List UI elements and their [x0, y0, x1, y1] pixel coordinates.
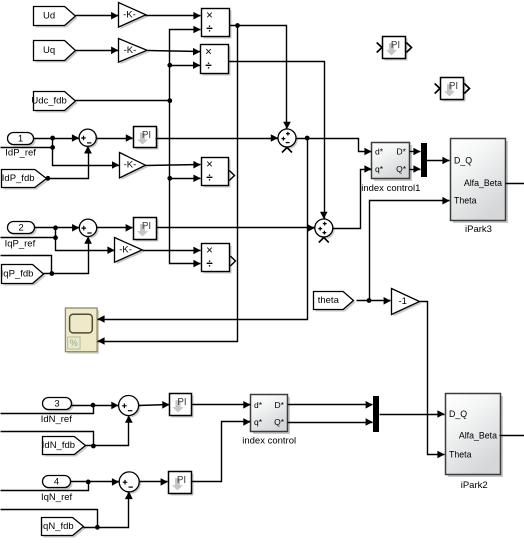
- svg-text:IqN_fdb: IqN_fdb: [40, 521, 73, 532]
- product-divide block P1: [202, 9, 232, 39]
- label IqP_ref: [5, 238, 36, 249]
- mux M2: [373, 396, 379, 432]
- svg-text:÷: ÷: [206, 24, 213, 36]
- product-divide block P4: [202, 244, 236, 274]
- wire Udc to P2 div: [170, 61, 201, 69]
- from tag Ud: [34, 7, 78, 28]
- svg-text:q*: q*: [254, 417, 263, 427]
- svg-text:×: ×: [206, 245, 213, 257]
- sum junction S3 (IdN err): [119, 396, 141, 423]
- scope Scope (flipped): [65, 308, 99, 354]
- wire ic Q* to mux2: [288, 418, 373, 426]
- svg-text:IdP_fdb: IdP_fdb: [2, 173, 35, 184]
- wire P2 out to SB2: [229, 62, 328, 220]
- svg-text:PI: PI: [449, 81, 458, 92]
- gain K2 (Uq): [119, 39, 150, 65]
- sum junction S4 (IqN err): [119, 472, 141, 499]
- junction IdN_fdb J: [91, 444, 96, 449]
- wire PI3 to ic d*: [192, 401, 251, 409]
- svg-text:%: %: [70, 338, 78, 348]
- svg-text:Udc_fdb: Udc_fdb: [31, 96, 66, 107]
- svg-text:Alfa_Beta: Alfa_Beta: [459, 430, 497, 440]
- wire IqN_fdb to S4 bottom: [84, 492, 133, 528]
- inport 3 (IdN_ref): [43, 398, 74, 412]
- junction in3 J: [91, 403, 96, 408]
- product-divide block P2: [201, 45, 231, 76]
- PI controller PI4: [169, 472, 194, 496]
- wire in1 down to K3: [53, 148, 120, 169]
- svg-text:q*: q*: [375, 164, 384, 174]
- svg-text:Q*: Q*: [274, 417, 285, 427]
- subsystem iPark2: [446, 394, 504, 478]
- svg-text:PI: PI: [142, 130, 151, 141]
- label IqN_ref: [41, 492, 73, 503]
- subsystem index control: [251, 395, 291, 435]
- wire IdP_ref out to edge: [1, 139, 53, 148]
- svg-text:PI: PI: [177, 475, 186, 486]
- junction P1 branch: [235, 23, 240, 28]
- wire SB1 to scope1: [97, 139, 307, 323]
- svg-text:d*: d*: [254, 400, 263, 410]
- wire in2 down to K4: [56, 238, 115, 255]
- svg-text:1: 1: [18, 134, 23, 145]
- svg-text:D*: D*: [397, 147, 407, 157]
- wire K1 to P1 x: [146, 12, 201, 20]
- wire IqP_fdb feed from edge: [1, 256, 52, 274]
- wire IdN_fdb feed from edge: [1, 432, 94, 447]
- wire ic1 D* to mux: [410, 148, 421, 156]
- junction Udc at P2: [167, 63, 172, 68]
- svg-text:iPark3: iPark3: [465, 224, 492, 235]
- junction in4 J: [86, 480, 91, 485]
- svg-text:Theta: Theta: [454, 196, 477, 206]
- svg-text:-K-: -K-: [119, 244, 132, 255]
- svg-text:D_Q: D_Q: [449, 409, 467, 419]
- svg-text:theta: theta: [318, 295, 340, 306]
- svg-text:IdN_ref: IdN_ref: [41, 414, 73, 425]
- mux M1: [421, 143, 427, 177]
- wire mux2 to iPark2: [380, 410, 445, 418]
- wire theta up to iPark3: [370, 197, 450, 301]
- wire IqP_fdb to S2 bottom: [44, 237, 92, 274]
- wire P1 out: [230, 26, 291, 130]
- PI controller PI floating A: [377, 37, 412, 61]
- wire SB1 out: [297, 139, 372, 156]
- svg-text:Theta: Theta: [449, 450, 472, 460]
- PI controller PI3: [170, 394, 194, 418]
- wire Uq to K2: [76, 47, 119, 55]
- svg-text:IdP_ref: IdP_ref: [5, 147, 36, 158]
- junction Udc at P3: [167, 176, 172, 181]
- wire iPark2 Alfa_Beta out: [500, 435, 524, 437]
- svg-text:Uq: Uq: [43, 45, 55, 56]
- wire in4 to S4: [71, 478, 120, 486]
- gain G-1 (theta): [392, 289, 422, 317]
- PI controller PI floating B: [435, 78, 470, 102]
- svg-text:4: 4: [54, 477, 59, 488]
- wire theta to -1: [357, 297, 391, 305]
- svg-text:×: ×: [206, 159, 213, 171]
- junction IqP_fdb J: [49, 271, 54, 276]
- svg-text:Q*: Q*: [396, 164, 407, 174]
- svg-text:3: 3: [54, 399, 59, 410]
- svg-text:IqN_ref: IqN_ref: [41, 492, 73, 503]
- svg-text:-1: -1: [398, 296, 406, 307]
- svg-text:index control1: index control1: [361, 183, 420, 194]
- svg-text:d*: d*: [375, 147, 384, 157]
- junction Udc main: [167, 98, 172, 103]
- svg-text:-K-: -K-: [123, 9, 136, 20]
- wire in3 to S3: [71, 402, 119, 410]
- wire mux1 to iPark3: [427, 157, 450, 165]
- from tag IqP_fdb: [1, 265, 46, 286]
- product-divide block P3: [202, 158, 235, 188]
- svg-text:-K-: -K-: [124, 160, 137, 171]
- wire K4 to P4 x: [143, 247, 201, 255]
- from tag Uq: [34, 41, 78, 63]
- wire PI4 to ic q*: [192, 418, 251, 481]
- inport 4 (IqN_ref): [43, 476, 73, 490]
- wire iPark3 Alfa_Beta out: [506, 183, 524, 185]
- wire in1 to S1: [34, 134, 80, 142]
- junction theta J: [367, 298, 372, 303]
- label index control1: [361, 183, 420, 194]
- wire ic D* to mux2: [288, 401, 373, 409]
- gain K4 (IqP): [115, 238, 145, 265]
- sum junction S2 (IqP err): [79, 219, 98, 243]
- label index control: [242, 435, 296, 446]
- label IdP_ref: [5, 147, 36, 158]
- svg-text:PI: PI: [391, 40, 400, 51]
- wire SB2 out to ic1 q*: [333, 165, 372, 228]
- subsystem iPark3: [451, 139, 509, 224]
- svg-text:Ud: Ud: [43, 11, 55, 22]
- inport 1 (IdP_ref): [8, 133, 36, 147]
- sum junction SB1 (d-axis): [278, 129, 298, 153]
- wire Udc down to P3 div: [170, 101, 201, 183]
- svg-text:D_Q: D_Q: [454, 156, 472, 166]
- wire K3 to P3 x: [146, 161, 201, 169]
- svg-text:÷: ÷: [205, 60, 212, 72]
- junction IdP_fdb J: [46, 176, 51, 181]
- wire S3 to PI3: [139, 401, 170, 409]
- PI controller PI1: [134, 127, 159, 150]
- svg-text:2: 2: [18, 223, 23, 234]
- from tag theta: [314, 292, 356, 312]
- junction SB1 J: [305, 136, 310, 141]
- label iPark3: [465, 224, 492, 235]
- svg-text:IqP_fdb: IqP_fdb: [1, 269, 34, 280]
- wire Ud to K1: [76, 12, 119, 20]
- from tag IqN_fdb: [40, 518, 85, 538]
- wire S2 to PI2: [97, 224, 133, 232]
- svg-text:PI: PI: [177, 397, 186, 408]
- junction in2 J2: [53, 235, 58, 240]
- svg-text:IqP_ref: IqP_ref: [5, 238, 36, 249]
- wire PI2 to SB2: [157, 224, 315, 232]
- wire IdN_ref out to edge: [1, 406, 94, 414]
- wire IqN_fdb feed from edge: [1, 510, 98, 528]
- svg-text:PI: PI: [142, 221, 151, 232]
- svg-text:D*: D*: [275, 400, 285, 410]
- subsystem index control1: [372, 143, 413, 182]
- svg-text:×: ×: [205, 46, 212, 58]
- wire S4 to PI4: [140, 478, 168, 486]
- wire in2 to S2: [35, 224, 80, 232]
- wire IdP_fdb to S1 bottom: [47, 146, 92, 178]
- wire Udc down to P4 div: [170, 179, 201, 268]
- PI controller PI2: [134, 218, 159, 242]
- wire S1 to PI1: [97, 134, 134, 142]
- junction IqN_fdb J: [95, 525, 100, 530]
- svg-text:÷: ÷: [206, 173, 213, 185]
- svg-text:IdN_fdb: IdN_fdb: [42, 440, 75, 451]
- junction in2 J1: [53, 225, 58, 230]
- junction in1 J1: [50, 136, 55, 141]
- from tag Udc_fdb: [31, 92, 77, 113]
- wire IqN_ref out to edge: [1, 482, 89, 491]
- svg-text:×: ×: [206, 10, 213, 22]
- svg-text:-K-: -K-: [124, 45, 137, 56]
- wire PI1 to SB1: [156, 134, 279, 142]
- label IdN_ref: [41, 414, 73, 425]
- sum junction S1 (IdP err): [79, 129, 98, 153]
- gain K3 (IdP): [120, 153, 148, 180]
- wire IqP_ref out to edge: [1, 228, 56, 238]
- svg-text:Alfa_Beta: Alfa_Beta: [464, 178, 502, 188]
- wire Udc_fdb distribution: [76, 26, 201, 101]
- svg-text:÷: ÷: [206, 259, 213, 271]
- sum junction SB2 (q-axis): [315, 219, 335, 243]
- wire ic1 Q* to mux: [410, 165, 421, 173]
- gain K1 (Ud): [119, 3, 148, 30]
- wire IdN_fdb to S3 bottom: [86, 416, 133, 446]
- from tag IdN_fdb: [42, 437, 88, 457]
- wire P1 branch to scope: [97, 26, 237, 345]
- inport 2 (IqP_ref): [8, 222, 37, 236]
- junction in1 J2: [50, 145, 55, 150]
- svg-text:index control: index control: [242, 435, 296, 446]
- svg-text:iPark2: iPark2: [461, 480, 488, 491]
- from tag IdP_fdb: [2, 170, 49, 190]
- label iPark2: [461, 480, 488, 491]
- wire -1 to iPark2 Theta: [420, 302, 445, 459]
- wire K2 to P2 x: [148, 48, 201, 56]
